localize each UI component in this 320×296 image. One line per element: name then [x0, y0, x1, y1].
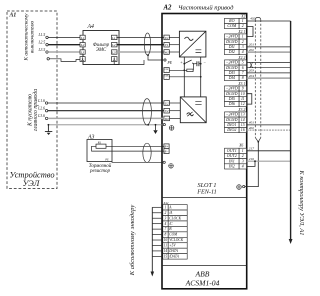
svg-text:Х6: Х6	[238, 144, 243, 148]
motor cable shield	[143, 99, 152, 125]
svg-text:8: 8	[165, 233, 167, 237]
svg-text:L3.5: L3.5	[37, 48, 45, 52]
svg-text:PE: PE	[104, 159, 109, 162]
encoder wire pin 7	[152, 228, 163, 230]
terminal OUT2 pin 2	[225, 153, 247, 158]
svg-text:5: 5	[242, 61, 244, 65]
svg-text:11: 11	[241, 97, 245, 101]
encoder wire pin 3	[152, 217, 163, 219]
svg-text:−: −	[166, 78, 167, 80]
svg-text:4: 4	[242, 50, 244, 54]
svg-text:А2: А2	[163, 5, 173, 12]
encoder wire pin 14	[152, 250, 163, 252]
svg-text:ACSM1-04: ACSM1-04	[185, 279, 220, 288]
svg-text:4: 4	[242, 165, 244, 169]
svg-text:14: 14	[241, 118, 245, 122]
svg-text:А4: А4	[87, 23, 95, 30]
brake cable shield	[143, 143, 151, 162]
inverter block	[180, 97, 206, 123]
svg-text:16: 16	[241, 128, 245, 132]
svg-text:1: 1	[242, 149, 244, 153]
svg-text:DIO2: DIO2	[226, 127, 236, 132]
filter ground terminal left	[80, 57, 85, 62]
terminal DGND pin 14	[225, 117, 247, 122]
device A1 dashed enclosure	[7, 11, 57, 189]
shield drain ground	[155, 124, 157, 126]
svg-text:1: 1	[242, 19, 244, 23]
drive output terminal U2	[164, 101, 170, 106]
svg-text:3: 3	[242, 45, 244, 49]
encoder wire pin 1	[152, 206, 163, 208]
drive PE terminal (brake side)	[163, 161, 165, 163]
wire L2' to V1	[117, 44, 164, 46]
X42 terminal B pin 7	[163, 226, 187, 231]
svg-text:L2.5: L2.5	[37, 41, 45, 45]
terminal IN2 pin 4	[225, 164, 247, 170]
terminal DI6 pin 12	[225, 101, 247, 107]
terminal OUT1 pin 1	[225, 148, 247, 154]
svg-text:L2.6: L2.6	[37, 107, 45, 111]
svg-text:402: 402	[249, 126, 255, 130]
A3 PE wire	[112, 160, 163, 163]
svg-text:13: 13	[241, 113, 245, 117]
drive input terminal V1	[164, 42, 169, 47]
ground at starter side	[48, 124, 50, 126]
wire -24VD	[247, 62, 291, 64]
terminal UDC-	[164, 74, 169, 79]
svg-text:PE: PE	[167, 61, 173, 65]
svg-text:L1': L1'	[111, 36, 116, 40]
X42 terminal /DATA pin 15	[163, 254, 187, 259]
encoder wire pin 10	[152, 239, 163, 241]
terminal R+	[164, 144, 169, 149]
filter terminal L2'	[112, 43, 118, 47]
filter ground terminal right	[112, 57, 118, 62]
terminal DI3 pin 7	[225, 70, 247, 76]
svg-text:L3.6: L3.6	[37, 114, 45, 118]
PE symbol STO	[237, 185, 242, 190]
encoder wire pin 15	[152, 255, 163, 257]
svg-text:2: 2	[242, 24, 244, 28]
svg-text:Х2.1: Х2.1	[237, 30, 245, 34]
X42 terminal +5V pin 11	[163, 243, 187, 248]
svg-text:А1: А1	[9, 13, 17, 19]
shield drain to PE	[147, 54, 149, 56]
terminal RO pin 1	[225, 18, 247, 24]
svg-text:4: 4	[165, 222, 167, 226]
svg-text:L2: L2	[80, 43, 85, 47]
PE terminal of drive	[164, 59, 166, 61]
svg-text:U1: U1	[165, 36, 169, 40]
X42 terminal DATA pin 14	[163, 248, 187, 253]
drive input terminal W1	[164, 50, 169, 55]
encoder wire pin 2	[152, 212, 163, 214]
svg-text:12: 12	[241, 102, 245, 106]
svg-text:L3: L3	[80, 51, 85, 55]
wire R-	[92, 146, 164, 151]
twisted pair mark	[249, 63, 253, 68]
wire L1' to U1	[117, 36, 164, 38]
svg-text:401: 401	[249, 121, 255, 125]
terminal COM pin 2	[225, 23, 247, 29]
filter terminal L3'	[112, 50, 118, 54]
mains cable shield	[144, 33, 150, 55]
svg-text:−: −	[203, 59, 206, 64]
svg-text:202: 202	[249, 48, 255, 52]
FEN-11 slot divider	[162, 196, 247, 198]
filter terminal L2	[80, 43, 85, 47]
filter terminal L1	[80, 35, 85, 39]
svg-text:Х3.2: Х3.2	[237, 108, 245, 112]
encoder wire pin 8	[152, 234, 163, 236]
DC link capacitor	[194, 63, 197, 65]
svg-text:201: 201	[249, 43, 255, 47]
svg-text:выключателю: выключателю	[29, 21, 35, 53]
svg-text:15: 15	[164, 254, 168, 258]
svg-text:L3': L3'	[111, 51, 116, 55]
encoder wire pin 11	[152, 244, 163, 246]
encoder cable trunk	[151, 207, 153, 272]
svg-text:U2: U2	[165, 102, 169, 106]
frequency drive A2 box	[162, 14, 247, 289]
drive output terminal W2	[164, 116, 170, 121]
terminal DI1 pin 3	[225, 44, 247, 50]
terminal DI5 pin 11	[225, 96, 247, 102]
shield drain V	[255, 138, 260, 142]
svg-text:К абсолютному энкодеру: К абсолютному энкодеру	[129, 205, 136, 277]
terminal −24VD pin 5	[225, 60, 247, 66]
svg-text:CLOCK: CLOCK	[169, 216, 181, 220]
svg-text:+: +	[180, 59, 183, 64]
svg-text:216: 216	[249, 157, 255, 161]
svg-text:V1: V1	[165, 43, 169, 47]
X42 terminal COM pin 8	[163, 232, 187, 237]
svg-text:Частотный привод: Частотный привод	[178, 5, 234, 12]
svg-text:W1: W1	[164, 51, 169, 55]
svg-text:1: 1	[242, 35, 244, 39]
wire L3' to W1 (grey)	[117, 51, 164, 53]
svg-text:COM: COM	[227, 23, 237, 28]
svg-text:Х2.2: Х2.2	[237, 56, 245, 60]
jumper IN1 to IN2	[254, 160, 256, 162]
wire UDC-	[169, 76, 200, 78]
svg-text:L1: L1	[80, 36, 85, 40]
shield drain down to PE	[245, 142, 258, 187]
svg-text:L1.5: L1.5	[37, 33, 45, 37]
svg-text:УЭЛ: УЭЛ	[23, 179, 41, 188]
svg-text:14: 14	[164, 249, 168, 253]
chopper resistor	[169, 69, 187, 71]
terminal DGND pin 6	[225, 65, 247, 70]
svg-text:COM: COM	[169, 233, 178, 237]
drive input terminal U1	[164, 35, 169, 40]
wire PE filter to drive	[114, 60, 144, 65]
svg-text:6: 6	[242, 66, 244, 70]
X42 terminal /C pin 4	[163, 221, 187, 226]
svg-text:3: 3	[242, 159, 244, 163]
svg-text:DATA: DATA	[168, 249, 178, 253]
terminal DI2 pin 4	[225, 49, 247, 55]
svg-text:W2: W2	[164, 117, 169, 121]
svg-text:L2': L2'	[111, 43, 116, 47]
svg-text:резистор: резистор	[89, 169, 110, 174]
svg-text:2: 2	[242, 154, 244, 158]
terminal DGND pin 10	[225, 91, 247, 96]
terminal DIO1 pin 15	[225, 122, 247, 128]
wire PE from A1 to filter ground	[47, 58, 49, 60]
PE terminal near STO	[243, 186, 245, 188]
svg-text:10: 10	[241, 92, 245, 96]
wire DGND	[247, 67, 291, 69]
drive output terminal V2	[164, 108, 170, 113]
svg-text:204: 204	[249, 74, 255, 78]
svg-text:/DATA: /DATA	[168, 254, 179, 258]
wire R+	[106, 145, 164, 147]
svg-text:7: 7	[165, 227, 167, 231]
svg-text:15: 15	[241, 123, 245, 127]
jumper COM to -24VD	[247, 27, 253, 37]
terminal −24VD pin 9	[225, 86, 247, 92]
svg-text:IN2: IN2	[228, 164, 235, 169]
svg-text:FEN-11: FEN-11	[196, 189, 216, 196]
encoder wire pin 4	[152, 223, 163, 225]
X42 terminal A pin 1	[163, 205, 187, 210]
X42 terminal CLOCK pin 3	[163, 216, 187, 221]
svg-text:10: 10	[164, 238, 168, 242]
terminal −24VD pin 13	[225, 112, 247, 118]
svg-text:/C: /C	[168, 222, 173, 226]
svg-text:DI6: DI6	[228, 101, 235, 106]
terminal DGND pin 2	[225, 39, 247, 45]
jumper DGND to DI6	[247, 94, 252, 104]
svg-text:+5V: +5V	[169, 244, 176, 248]
terminal −24VD pin 1	[225, 34, 247, 40]
cable trunk to UEL controller	[290, 21, 292, 240]
svg-text:11: 11	[164, 244, 168, 248]
PE symbol near motor terminals	[169, 126, 174, 131]
drive PE terminal (motor side)	[163, 124, 165, 126]
svg-text:Х3.1: Х3.1	[237, 82, 245, 86]
svg-text:2: 2	[165, 211, 167, 215]
terminal DIO2 pin 16	[225, 127, 247, 133]
svg-text:203: 203	[249, 69, 255, 73]
svg-text:Х2: Х2	[240, 14, 245, 18]
chopper switch	[183, 63, 185, 65]
svg-text:217: 217	[249, 147, 255, 151]
terminal R-	[164, 149, 169, 154]
DC bus rails	[183, 57, 185, 97]
motor PE wire (grey)	[48, 124, 163, 126]
control cable shield (dashed)	[255, 17, 261, 19]
terminal IN1 pin 3	[225, 158, 247, 164]
svg-text:DI2: DI2	[228, 49, 235, 54]
svg-text:3: 3	[165, 216, 167, 220]
svg-text:402: 402	[250, 17, 256, 21]
svg-text:R−: R−	[163, 150, 168, 154]
svg-text:L1.6: L1.6	[37, 99, 45, 103]
svg-text:V2: V2	[165, 109, 169, 113]
svg-text:ЭМС: ЭМС	[96, 48, 107, 53]
terminal DI4 pin 8	[225, 75, 247, 81]
svg-text:R+: R+	[163, 145, 168, 149]
ABB section divider	[162, 265, 247, 267]
PE symbol near brake terminals	[169, 164, 174, 169]
filter terminal L1'	[112, 35, 118, 39]
svg-text:ABB: ABB	[195, 270, 210, 279]
svg-text:1: 1	[165, 205, 167, 209]
svg-text:К контроллеру УЭЛ, А1: К контроллеру УЭЛ, А1	[298, 170, 305, 236]
filter terminal L3	[80, 50, 85, 54]
svg-text:2: 2	[242, 40, 244, 44]
svg-text:9: 9	[242, 87, 244, 91]
X42 terminal VCLOCK pin 10	[163, 237, 187, 242]
X42 terminal /A pin 2	[163, 210, 187, 215]
terminal UDC+	[164, 68, 169, 73]
svg-text:8: 8	[242, 76, 244, 80]
rectifier block	[179, 31, 206, 57]
svg-text:VCLOCK: VCLOCK	[169, 238, 184, 242]
svg-text:DI4: DI4	[228, 75, 235, 80]
